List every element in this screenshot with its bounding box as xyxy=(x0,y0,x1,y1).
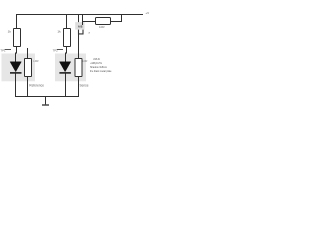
jumper JP1 body xyxy=(75,22,84,30)
svg-text:1k: 1k xyxy=(8,30,12,34)
resistor R1 xyxy=(14,29,21,47)
svg-text:the black metal plate: the black metal plate xyxy=(90,69,112,73)
svg-text:1k: 1k xyxy=(57,30,61,34)
svg-text:A B: A B xyxy=(78,24,83,28)
LED D1 xyxy=(10,62,21,72)
resistor R3 xyxy=(96,18,111,25)
resistor R2 xyxy=(64,29,71,47)
wire R2 to LED2 xyxy=(66,47,67,64)
wire resistor R3 left branch / jumper pin B xyxy=(82,15,84,26)
wire R3 right branch to supply xyxy=(111,15,122,22)
wire supply to jumper pin A xyxy=(78,15,80,26)
LED D2 xyxy=(60,62,71,72)
svg-text:LDR: LDR xyxy=(33,59,38,63)
wire LDR R4 to bottom rail xyxy=(27,77,29,97)
svg-text:x: x xyxy=(89,30,91,34)
jumper shunt link xyxy=(79,30,84,34)
wire jumper to LDR R5 xyxy=(78,34,80,59)
svg-text:Sense: Sense xyxy=(80,83,89,87)
photo-isolator shaded box (Sense cell) xyxy=(55,54,86,82)
ground bar xyxy=(42,104,49,106)
LDR R4 xyxy=(25,59,32,77)
photo-isolator shaded box (Reference cell) xyxy=(2,54,36,82)
wire: top supply rail xyxy=(17,15,144,29)
svg-text:10R: 10R xyxy=(99,25,105,29)
wire LDR R5 to bottom rail xyxy=(78,77,80,97)
wire bottom rail xyxy=(15,96,79,98)
svg-text:+V: +V xyxy=(145,11,149,15)
LDR R4 stub wire xyxy=(27,48,29,59)
wire supply to resistor R2 xyxy=(66,15,68,29)
svg-text:Reference: Reference xyxy=(29,83,44,87)
wire LED1 to bottom rail xyxy=(15,73,17,96)
wire R1 to LED1 xyxy=(16,47,17,64)
svg-text:LDR: LDR xyxy=(82,59,87,63)
ground stem xyxy=(45,97,47,105)
wire LED2 to bottom rail xyxy=(65,73,67,96)
LDR R5 xyxy=(75,59,82,77)
